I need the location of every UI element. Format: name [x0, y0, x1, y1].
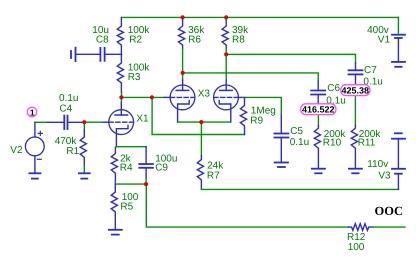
- node 1 wire and C4: [35, 121, 48, 123]
- resistor R4: [111, 147, 117, 184]
- resistor R7: [197, 156, 203, 189]
- svg-text:100: 100: [348, 242, 365, 253]
- ground R1: [79, 173, 90, 178]
- svg-text:V3: V3: [378, 171, 391, 182]
- capacitor C7: [349, 63, 363, 85]
- wire cathode row to C9: [116, 146, 146, 148]
- junction C4 / R1 / X1 grid: [82, 120, 86, 124]
- junction X3 left plate / C6 wire: [181, 71, 185, 75]
- ground C5: [275, 163, 288, 168]
- svg-text:V1: V1: [378, 35, 391, 46]
- resistor R10: [314, 126, 320, 169]
- svg-text:C5: C5: [290, 126, 303, 137]
- svg-text:0.1u: 0.1u: [59, 93, 78, 104]
- triode X3 right (mirrored): [214, 80, 243, 122]
- svg-text:X3: X3: [198, 89, 211, 100]
- svg-text:R9: R9: [250, 116, 263, 127]
- capacitor C4: [48, 116, 84, 129]
- triode X3 left: [165, 80, 195, 122]
- probe box 425.38: [341, 85, 370, 96]
- ground R11: [349, 169, 362, 174]
- wire cathode bus: [178, 121, 231, 123]
- capacitor C9: [139, 147, 153, 178]
- svg-text:110v: 110v: [367, 159, 388, 170]
- wire C6 to R10: [317, 115, 319, 126]
- source V2: [25, 122, 44, 172]
- wire R7 to V3: [201, 188, 398, 190]
- wire R8 bottom to dot: [225, 49, 227, 55]
- resistor R5: [111, 184, 117, 229]
- node 1 bubble: [27, 107, 36, 117]
- svg-text:0.1u: 0.1u: [290, 137, 309, 148]
- resistor R8: [222, 17, 228, 48]
- battery V1: [392, 35, 405, 62]
- wire bottom long: [146, 184, 348, 227]
- junction R6 top at rail: [181, 15, 185, 19]
- svg-text:C9: C9: [155, 163, 168, 174]
- junction R4-R5 / C9 / bottom wire: [144, 182, 148, 186]
- svg-text:416.522: 416.522: [302, 104, 335, 114]
- wire C7 feed: [226, 54, 355, 63]
- wire C4 to X1 grid: [84, 121, 102, 123]
- resistor R2: [117, 17, 123, 54]
- junction plate node branch: [150, 95, 154, 99]
- battery V3: [392, 133, 405, 189]
- svg-text:425.38: 425.38: [342, 85, 370, 95]
- capacitor C5: [274, 115, 288, 162]
- svg-text:R2: R2: [129, 35, 142, 46]
- svg-text:1: 1: [30, 107, 35, 117]
- wire C9 bottom to junction: [145, 178, 147, 184]
- wire X3b plate lead upper: [225, 54, 227, 80]
- ground V2: [29, 173, 40, 178]
- wire R7 top: [200, 122, 202, 156]
- svg-text:X1: X1: [136, 113, 149, 124]
- wire R12 right open end: [373, 226, 405, 228]
- resistor R9: [240, 97, 246, 134]
- ground V1: [392, 62, 405, 67]
- wire R6 bottom: [182, 49, 184, 81]
- resistor R11: [351, 126, 357, 169]
- svg-text:OOC: OOC: [375, 204, 403, 218]
- svg-text:R1: R1: [66, 146, 79, 157]
- svg-text:R7: R7: [207, 171, 220, 182]
- wire X1 plate lead upper: [120, 97, 122, 102]
- svg-text:R5: R5: [120, 201, 133, 212]
- resistor R12: [349, 224, 373, 231]
- wire top rail: [122, 16, 399, 18]
- resistor R6: [179, 17, 185, 48]
- svg-text:R11: R11: [358, 138, 376, 149]
- wire R3 to plate node: [121, 92, 123, 97]
- svg-text:R8: R8: [232, 35, 245, 46]
- svg-text:C7: C7: [364, 65, 377, 76]
- wire plate node row: [122, 96, 165, 98]
- svg-text:R4: R4: [120, 163, 133, 174]
- junction X1 plate / R3 bottom: [119, 95, 123, 99]
- svg-text:V2: V2: [10, 145, 23, 156]
- probe box 416.522: [301, 104, 336, 115]
- capacitor C6: [311, 81, 325, 104]
- capacitor C8: [76, 48, 122, 61]
- wire V1 top lead: [397, 17, 399, 33]
- ground R5: [109, 230, 122, 235]
- resistor R1: [80, 122, 86, 173]
- junction R8 top at rail: [224, 15, 228, 19]
- svg-text:R3: R3: [128, 72, 141, 83]
- junction R8 bottom / X3 right plate / C7 wire: [224, 52, 228, 56]
- wire C6 feed: [183, 73, 319, 81]
- triode X1: [102, 103, 134, 147]
- wire grid right to C5: [243, 97, 282, 115]
- wire C7 to R11: [354, 96, 356, 126]
- svg-text:C8: C8: [96, 35, 109, 46]
- resistor R3: [117, 54, 123, 92]
- ground (sideways, C8 input): [71, 48, 76, 61]
- wire R4-R5 junction row: [115, 183, 146, 185]
- svg-text:R10: R10: [323, 138, 342, 149]
- ground R10: [312, 169, 325, 174]
- svg-text:C6: C6: [327, 83, 340, 94]
- junction cathode bus / R7: [199, 120, 203, 124]
- svg-text:R6: R6: [188, 35, 201, 46]
- wire drop to R9 bottom: [152, 97, 244, 134]
- svg-text:C4: C4: [59, 104, 72, 115]
